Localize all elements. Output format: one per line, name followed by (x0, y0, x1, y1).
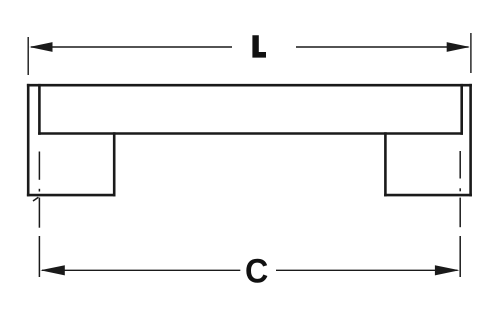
svg-text:C: C (245, 253, 268, 291)
